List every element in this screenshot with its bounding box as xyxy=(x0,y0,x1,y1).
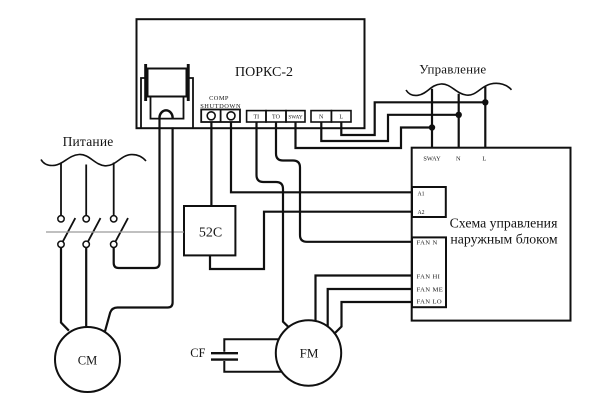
junction dot L xyxy=(482,99,488,105)
control box Схема управления xyxy=(412,148,571,321)
svg-text:TO: TO xyxy=(272,115,281,121)
terminal TI xyxy=(247,111,266,122)
compressor lower box xyxy=(151,97,184,119)
wire phase 2 to CM xyxy=(85,248,87,328)
svg-text:N: N xyxy=(319,115,324,121)
svg-text:SWAY: SWAY xyxy=(288,115,302,121)
wire FAN ME to FM xyxy=(328,289,412,326)
unit ПОРКС-2 box xyxy=(137,19,365,128)
switch 2 bottom contact xyxy=(83,241,89,247)
switch 2 blade xyxy=(88,218,101,242)
svg-text:Схема управления: Схема управления xyxy=(450,216,559,231)
wire 52C to A2 xyxy=(210,212,412,269)
terminal SWAY xyxy=(286,111,305,122)
junction dot SWAY xyxy=(429,124,435,130)
switch 1 bottom contact xyxy=(58,241,64,247)
svg-text:Управление: Управление xyxy=(419,62,486,77)
switch 1 blade xyxy=(63,218,76,242)
wire FAN HI to FM xyxy=(316,276,413,322)
switch 2 top contact xyxy=(83,216,89,222)
wire control SWAY drop xyxy=(431,89,433,148)
switch 3 top contact xyxy=(111,216,117,222)
wire shutdown-right to A1 xyxy=(231,122,412,192)
capacitor CF bottom lead xyxy=(224,361,282,372)
svg-text:SWAY: SWAY xyxy=(423,155,441,162)
switch phase 1 drop wire xyxy=(60,163,62,216)
motor FM xyxy=(276,320,341,385)
compressor right end cap xyxy=(187,64,190,101)
svg-text:L: L xyxy=(339,115,343,121)
svg-text:FAN LO: FAN LO xyxy=(417,299,443,306)
compressor symbol outer case xyxy=(141,78,193,128)
switch 3 blade xyxy=(116,218,129,242)
compressor cylinder body xyxy=(148,69,187,97)
svg-text:CF: CF xyxy=(190,346,205,360)
wire shutdown-left to 52C xyxy=(210,122,212,206)
terminal N xyxy=(311,111,331,122)
terminal circle shutdown-left xyxy=(207,112,215,120)
svg-text:N: N xyxy=(456,155,461,162)
wire L terminal to control xyxy=(341,102,485,135)
terminal box A1 A2 xyxy=(412,187,446,217)
svg-text:COMP: COMP xyxy=(209,95,229,102)
wire control N drop xyxy=(458,94,460,148)
junction dot N xyxy=(456,112,462,118)
wavy line Управление xyxy=(406,83,512,95)
svg-text:A1: A1 xyxy=(418,191,425,197)
terminal TO xyxy=(266,111,286,122)
svg-text:TI: TI xyxy=(253,115,259,121)
terminal circle shutdown-right xyxy=(227,112,235,120)
gang linkage line xyxy=(46,231,184,233)
svg-text:FAN HI: FAN HI xyxy=(417,273,441,280)
motor CM xyxy=(55,327,120,392)
svg-text:52C: 52C xyxy=(199,226,222,241)
terminal L xyxy=(331,111,351,122)
wire compressor right lead to CM xyxy=(105,127,173,332)
terminal box FAN xyxy=(412,237,446,307)
relay box 52C xyxy=(184,206,235,255)
wire control L drop xyxy=(484,87,486,148)
svg-text:L: L xyxy=(482,155,486,162)
compressor winding arch xyxy=(160,110,173,119)
wire phase 1 to CM xyxy=(61,248,69,331)
svg-text:FAN ME: FAN ME xyxy=(417,286,444,293)
svg-text:Питание: Питание xyxy=(63,134,114,149)
switch phase 3 drop wire xyxy=(113,163,115,216)
svg-text:A2: A2 xyxy=(418,210,425,216)
wire FAN LO to FM xyxy=(334,302,412,334)
compressor left end cap xyxy=(144,64,147,101)
capacitor CF top lead xyxy=(224,339,279,352)
terminal block COMP SHUTDOWN xyxy=(201,110,240,123)
wire SWAY terminal to control xyxy=(296,122,433,148)
wire N terminal to control xyxy=(321,115,458,141)
svg-text:FAN N: FAN N xyxy=(417,240,438,247)
switch 1 top contact xyxy=(58,216,64,222)
wire phase 3 to compressor left lead xyxy=(114,119,160,268)
wavy line Питание xyxy=(41,154,146,165)
wire TI to FM xyxy=(257,122,289,327)
svg-text:ПОРКС-2: ПОРКС-2 xyxy=(235,65,293,80)
svg-text:FM: FM xyxy=(300,346,319,361)
svg-text:наружным блоком: наружным блоком xyxy=(450,232,557,247)
switch 3 bottom contact xyxy=(111,241,117,247)
switch phase 2 drop wire xyxy=(85,165,87,216)
wire TO to FAN N xyxy=(276,122,412,242)
svg-text:CM: CM xyxy=(78,354,97,368)
capacitor CF plates xyxy=(211,353,238,359)
